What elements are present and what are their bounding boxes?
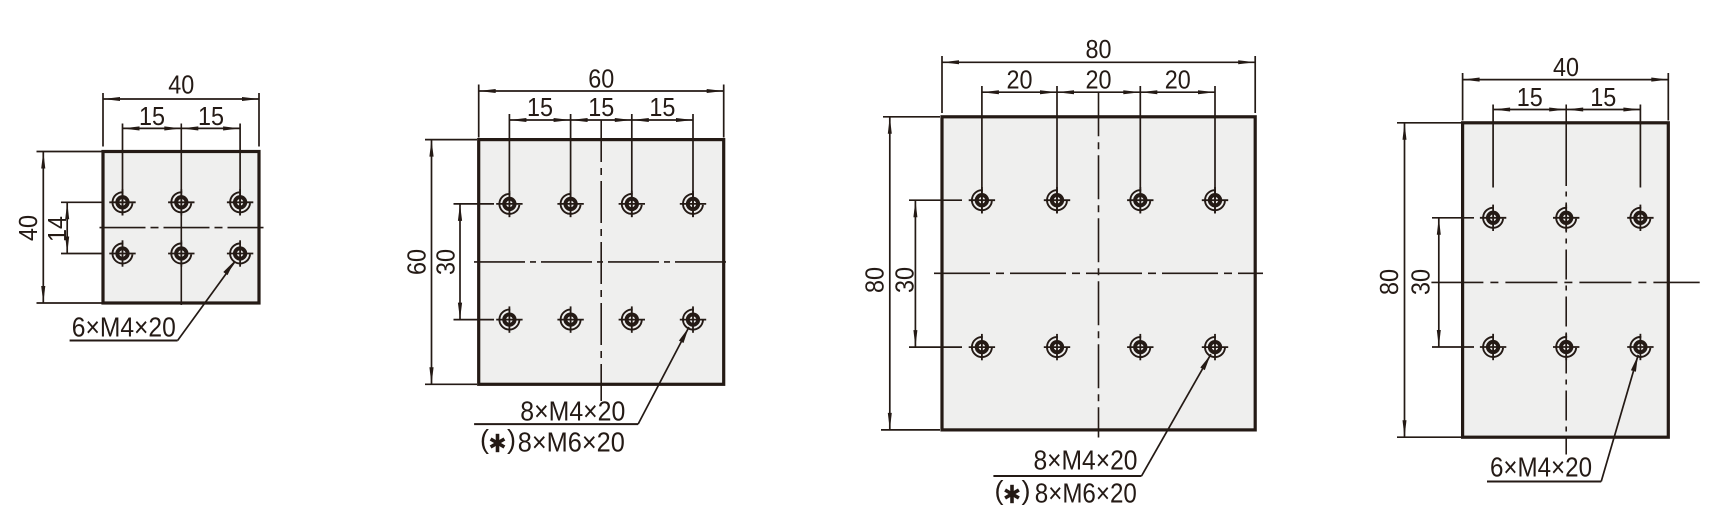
svg-text:20: 20 (1086, 65, 1112, 95)
dimension 60 left (429, 140, 433, 385)
vertical centerline (1098, 92, 1100, 437)
hole r1c3 M4 (227, 189, 253, 215)
extension lines top dim 60 (478, 85, 480, 138)
extension lines top dim 40 (1462, 73, 1464, 121)
svg-text:6×M4×20: 6×M4×20 (72, 311, 176, 342)
hole r1c2 M4 (168, 189, 194, 215)
svg-text:15: 15 (198, 101, 224, 131)
dimension 20 x3 top (982, 90, 1215, 94)
label (*) 8xM6x20 (995, 476, 1137, 509)
hole r2c3 M4 (1627, 334, 1653, 360)
hole r2c3 M4/M6 (1127, 334, 1153, 360)
plate 80x80 (942, 117, 1255, 430)
svg-text:14: 14 (42, 216, 72, 242)
hole r2c1 M4/M6 (496, 306, 522, 332)
hole r2c2 M4 (168, 240, 194, 266)
hole r1c1 M4/M6 (969, 187, 995, 213)
leader to hole (1601, 355, 1638, 482)
hole r2c1 M4/M6 (969, 334, 995, 360)
vertical centerline (600, 120, 602, 401)
dimension 14 (65, 202, 69, 253)
hole r2c4 M4/M6 (1202, 334, 1228, 360)
svg-text:30: 30 (890, 267, 920, 293)
hole r2c1 M4 (109, 240, 135, 266)
svg-text:(: ( (480, 425, 489, 455)
svg-text:15: 15 (1590, 82, 1616, 112)
extension lines dim 30 (909, 199, 962, 201)
hole r1c2 M4 (1553, 205, 1579, 231)
hole r2c2 M4/M6 (557, 306, 583, 332)
extension lines cols for 15 dims (508, 114, 510, 217)
dimension 30 (913, 200, 917, 347)
dimension 15 15 top (123, 126, 241, 130)
hole r1c1 M4 (109, 189, 135, 215)
svg-text:60: 60 (588, 64, 614, 94)
svg-text:15: 15 (139, 101, 165, 131)
leader to hole (178, 261, 236, 341)
label underline (70, 340, 178, 342)
horizontal centerline (1431, 281, 1699, 283)
plate 40x80 (1463, 123, 1669, 437)
svg-text:30: 30 (1406, 269, 1436, 295)
horizontal centerline (474, 261, 726, 263)
svg-text:8×M6×20: 8×M6×20 (1035, 478, 1137, 509)
extension lines dim 30 (454, 203, 495, 205)
extension lines cols for 20 dims (981, 86, 983, 213)
svg-text:6×M4×20: 6×M4×20 (1490, 452, 1592, 483)
dimension 40 left (41, 152, 45, 304)
dimension 15 x3 top (509, 118, 693, 122)
extension lines dim 14 (61, 201, 102, 203)
dimension 30 (458, 204, 462, 320)
svg-text:): ) (1022, 476, 1031, 506)
svg-text:80: 80 (1086, 34, 1112, 64)
svg-text:40: 40 (168, 70, 194, 100)
dimension 40 top (103, 97, 259, 101)
hole r1c1 M4/M6 (496, 191, 522, 217)
dimension 80 top (942, 60, 1255, 64)
dimension 60 top (479, 89, 724, 93)
hole r1c2 M4/M6 (1044, 187, 1070, 213)
svg-text:8×M4×20: 8×M4×20 (520, 396, 625, 427)
hole r2c4 M4/M6 (680, 306, 706, 332)
hole r1c1 M4 (1480, 205, 1506, 231)
leader to hole (638, 327, 689, 424)
hole r1c3 M4/M6 (619, 191, 645, 217)
label (*) 8xM6x20 (480, 425, 625, 458)
svg-text:20: 20 (1165, 65, 1191, 95)
svg-text:): ) (507, 425, 516, 455)
vertical centerline mid column (1565, 105, 1567, 187)
hole r1c3 M4/M6 (1127, 187, 1153, 213)
svg-text:60: 60 (402, 249, 432, 275)
hole r1c3 M4 (1627, 205, 1653, 231)
dimension 80 left (888, 117, 892, 430)
hole r1c2 M4/M6 (557, 191, 583, 217)
extension lines left dim 80 (883, 116, 940, 118)
label underline (474, 423, 638, 425)
dimension 80 left (1403, 123, 1407, 437)
dimension 40 top (1463, 78, 1669, 82)
svg-text:80: 80 (1374, 269, 1404, 295)
dimension 30 (1437, 218, 1441, 347)
svg-text:15: 15 (1517, 82, 1543, 112)
hole r2c2 M4/M6 (1044, 334, 1070, 360)
svg-text:30: 30 (431, 249, 461, 275)
label underline (1487, 481, 1601, 483)
extension lines top dim 80 (941, 56, 943, 113)
hole r1c4 M4/M6 (680, 191, 706, 217)
leader to hole (1142, 354, 1211, 476)
hole r2c3 M4/M6 (619, 306, 645, 332)
svg-text:8×M6×20: 8×M6×20 (518, 427, 625, 458)
svg-text:(: ( (995, 476, 1004, 506)
svg-text:40: 40 (13, 215, 43, 241)
svg-text:8×M4×20: 8×M4×20 (1034, 445, 1138, 476)
hole r1c4 M4/M6 (1202, 187, 1228, 213)
vertical centerline mid column (180, 124, 182, 306)
svg-text:40: 40 (1553, 52, 1579, 82)
extension lines cols for 15 dims (122, 124, 124, 216)
svg-text:15: 15 (588, 92, 614, 122)
extension lines dim 30 (1432, 217, 1474, 219)
svg-text:20: 20 (1007, 65, 1033, 95)
extension lines left dim 40 (37, 151, 102, 153)
svg-text:80: 80 (860, 267, 890, 293)
svg-text:15: 15 (527, 92, 553, 122)
plate 60x60 (479, 140, 724, 385)
horizontal centerline (100, 227, 264, 229)
plate 40x40 (103, 152, 259, 304)
extension lines top dim 40 (102, 93, 104, 147)
svg-text:15: 15 (649, 92, 675, 122)
hole r2c1 M4 (1480, 334, 1506, 360)
horizontal centerline (934, 272, 1263, 274)
extension lines left dim 60 (425, 139, 477, 141)
extension lines left dim 80 (1397, 122, 1461, 124)
hole r2c3 M4 (227, 240, 253, 266)
hole r2c2 M4 (1553, 334, 1579, 360)
dimension 15 15 top (1493, 108, 1640, 112)
label underline (993, 475, 1141, 477)
extension lines cols for 15 dims (1492, 105, 1494, 188)
